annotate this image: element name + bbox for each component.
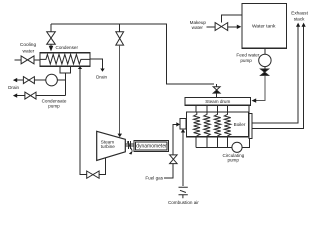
valve V10 fuel gas bbox=[170, 155, 178, 164]
label Feed water pump bbox=[236, 53, 259, 63]
valve V3 turbine steam bbox=[116, 32, 124, 45]
boiler coil 4 bbox=[224, 112, 230, 137]
valve V8 drain2 bbox=[25, 92, 36, 99]
wire cooling water inlet bbox=[14, 59, 21, 61]
arrow stack A bbox=[296, 23, 300, 27]
label Condensate pump bbox=[42, 98, 67, 108]
svg-text:pump: pump bbox=[227, 158, 239, 163]
wire boiler bottom stubs bbox=[196, 137, 228, 148]
arrow into condenser top bbox=[49, 46, 54, 52]
valve V9 exhaust bbox=[87, 171, 99, 178]
condenser coil bbox=[40, 54, 90, 64]
svg-text:stack: stack bbox=[294, 17, 305, 22]
right header bbox=[249, 114, 252, 139]
wire pump to valve bbox=[264, 67, 266, 69]
wire steam to turbine bbox=[119, 45, 121, 134]
label Circulating pump bbox=[223, 153, 245, 163]
svg-text:water: water bbox=[192, 25, 204, 30]
label Fuel gas bbox=[145, 175, 163, 180]
label Steam drum bbox=[205, 99, 230, 104]
svg-text:Drain: Drain bbox=[96, 75, 107, 80]
arrow into turbine bbox=[118, 134, 123, 138]
turbine exhaust bbox=[99, 158, 105, 174]
label Drain right bbox=[96, 75, 107, 80]
label Boiler bbox=[234, 122, 246, 127]
coupling bbox=[128, 141, 130, 149]
wire makeup bypass bbox=[221, 15, 242, 22]
svg-text:water: water bbox=[23, 48, 35, 54]
label Makeup water bbox=[190, 20, 207, 30]
wire feed to drum bbox=[256, 75, 265, 100]
boiler coil 3 bbox=[214, 112, 220, 137]
arrow into tank bbox=[237, 25, 242, 29]
valve V5 makeup bbox=[215, 23, 228, 31]
wire fuel riser bbox=[173, 124, 176, 154]
label dynamometer bbox=[136, 144, 167, 150]
svg-text:dynamometer: dynamometer bbox=[136, 144, 167, 150]
stack line B bbox=[252, 27, 304, 129]
svg-text:Boiler: Boiler bbox=[234, 122, 246, 127]
svg-text:Combustion air: Combustion air bbox=[168, 200, 199, 205]
arrow stack B bbox=[302, 23, 306, 27]
dynamometer (inner) bbox=[136, 142, 168, 150]
arrow row2 drain bbox=[13, 93, 17, 97]
svg-text:Drain: Drain bbox=[8, 85, 19, 90]
shaft bbox=[125, 144, 134, 146]
arrow air into burner bbox=[181, 129, 185, 133]
water tank bbox=[242, 4, 287, 49]
arrow fuel into burner bbox=[176, 122, 180, 126]
wire top steam run bbox=[51, 24, 214, 84]
svg-text:Steam drum: Steam drum bbox=[205, 99, 230, 104]
wire tank to feed pump bbox=[264, 48, 266, 54]
wire valve V4 stems bbox=[216, 84, 218, 97]
boiler coil 1 bbox=[194, 112, 200, 137]
wire turbine branch drop bbox=[119, 24, 121, 32]
valve V7 condensate bbox=[23, 77, 34, 84]
svg-text:turbine: turbine bbox=[101, 144, 115, 149]
steam drum bbox=[185, 98, 251, 106]
arrow row1 drain bbox=[13, 78, 17, 82]
svg-text:Cooling: Cooling bbox=[20, 42, 37, 48]
air break symbol bbox=[179, 187, 188, 198]
svg-text:Fuel gas: Fuel gas bbox=[145, 175, 163, 180]
valve V2 condenser steam bbox=[47, 32, 56, 45]
label Condenser bbox=[56, 45, 79, 50]
fuel gas line bbox=[164, 164, 173, 178]
arrow into drum bbox=[252, 98, 257, 102]
boiler coil 2 bbox=[204, 112, 210, 137]
circulating pump P3 bbox=[232, 142, 242, 152]
wire valve to tank bbox=[228, 26, 237, 28]
arrow into condenser bottom bbox=[78, 66, 82, 69]
wire row1 to arrow bbox=[17, 79, 23, 81]
svg-text:pump: pump bbox=[240, 58, 252, 63]
makeup water line bbox=[207, 26, 216, 28]
valve V4 drum steam (filled) bbox=[213, 87, 220, 90]
wire row2 to arrow bbox=[17, 95, 25, 97]
feed water pump P2 bbox=[259, 54, 271, 66]
wire hotwell down bbox=[64, 73, 66, 96]
condenser drain right bbox=[90, 59, 103, 68]
label Drain left bbox=[8, 85, 19, 90]
svg-text:Water tank: Water tank bbox=[252, 23, 276, 29]
wire exhaust to condenser bbox=[80, 69, 87, 175]
svg-text:Feed water: Feed water bbox=[236, 53, 259, 58]
svg-text:Exhaust: Exhaust bbox=[291, 11, 308, 16]
coupling arrow bbox=[129, 151, 133, 155]
valve V6 feed (filled) bbox=[261, 69, 269, 72]
label Cooling water bbox=[20, 42, 37, 54]
wire condensate row1 bbox=[34, 79, 65, 81]
valve V1 cooling water bbox=[21, 56, 34, 64]
dynamometer (outer) bbox=[134, 140, 169, 151]
label Exhaust stack bbox=[291, 11, 308, 22]
wire valve to condenser bbox=[50, 44, 52, 46]
label Combustion air bbox=[168, 200, 199, 205]
svg-text:Condenser: Condenser bbox=[56, 45, 79, 50]
combustion air line bbox=[182, 132, 184, 186]
wire drum-boiler stubs bbox=[196, 105, 249, 112]
label Water tank bbox=[252, 23, 276, 29]
wire condensate row2 bbox=[36, 95, 65, 97]
wire return header bbox=[196, 138, 250, 147]
burner box bbox=[180, 119, 186, 130]
boiler bbox=[187, 112, 249, 137]
label Steam turbine bbox=[101, 139, 116, 149]
hotwell bbox=[60, 66, 71, 73]
steam turbine bbox=[97, 131, 126, 160]
condensate pump P1 bbox=[46, 74, 58, 86]
svg-text:pump: pump bbox=[48, 104, 60, 109]
condenser bbox=[40, 53, 90, 67]
stack line A bbox=[252, 27, 298, 124]
wire condenser steam inlet drop bbox=[50, 24, 52, 32]
coupling slash bbox=[127, 141, 132, 150]
arrow condenser drain bbox=[100, 69, 104, 72]
